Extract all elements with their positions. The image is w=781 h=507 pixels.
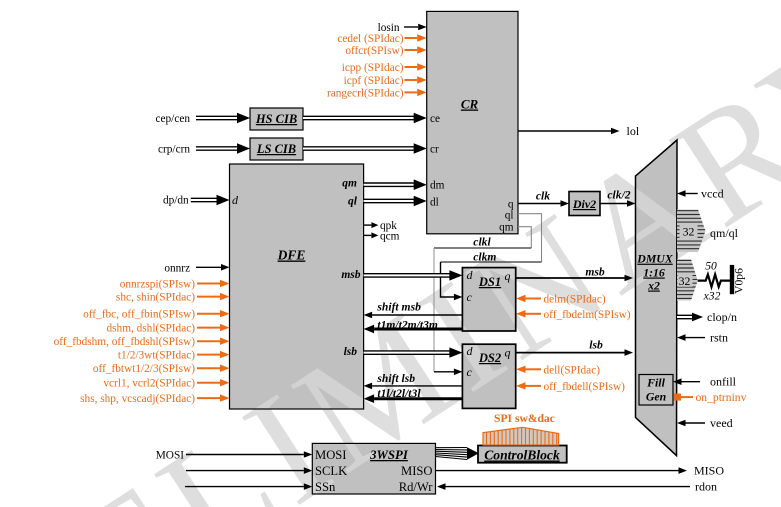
wire icpp to CR — [405, 66, 418, 68]
svg-text:delm(SPIdac): delm(SPIdac) — [544, 294, 606, 306]
svg-text:offcr(SPIsw): offcr(SPIsw) — [345, 45, 403, 57]
svg-text:1:16: 1:16 — [643, 266, 665, 280]
wire dell(SPIdac) to DS2 — [526, 368, 542, 370]
svg-text:q: q — [505, 346, 511, 360]
svg-text:V0p6: V0p6 — [733, 268, 746, 294]
svg-text:rangecrl(SPIdac): rangecrl(SPIdac) — [327, 87, 404, 99]
block HS CIB fill — [250, 108, 303, 130]
svg-text:onnrzspi(SPIsw): onnrzspi(SPIsw) — [120, 279, 196, 291]
svg-text:Fill: Fill — [646, 376, 665, 390]
svg-text:clk/2: clk/2 — [607, 189, 630, 202]
svg-text:off_fbc, off_fbin(SPIsw): off_fbc, off_fbin(SPIsw) — [83, 309, 195, 321]
svg-text:shs, shp, vcscadj(SPIdac): shs, shp, vcscadj(SPIdac) — [80, 393, 195, 405]
block 3WSPI fill — [312, 443, 435, 494]
svg-text:off_fbtwt1/2/3(SPIsw): off_fbtwt1/2/3(SPIsw) — [93, 363, 195, 375]
block DS1 fill — [462, 268, 515, 331]
svg-text:clop/n: clop/n — [707, 310, 737, 324]
wire clkm vertical to DS1 c — [441, 262, 455, 297]
wire DFE qcm out — [364, 234, 372, 236]
wire onnrz to DFE — [196, 266, 221, 268]
block LS CIB fill — [250, 138, 303, 160]
svg-text:vcrl1, vcrl2(SPIdac): vcrl1, vcrl2(SPIdac) — [103, 378, 195, 390]
svg-text:DFE: DFE — [277, 248, 306, 263]
svg-text:ql: ql — [505, 210, 514, 222]
wire vcrl1, vcrl2(SPIdac) to DFE — [197, 382, 220, 384]
wire DS1 q msb to DMUX — [516, 277, 625, 279]
svg-text:t1l/t2l/t3l: t1l/t2l/t3l — [377, 387, 421, 400]
wire Div2 clk/2 to DMUX — [600, 203, 627, 205]
diff wire HS CIB to CR ce — [303, 116, 415, 121]
svg-text:t1m/t2m/t3m: t1m/t2m/t3m — [377, 318, 438, 331]
svg-text:veed: veed — [710, 416, 733, 430]
svg-text:DS1: DS1 — [478, 275, 501, 289]
svg-text:shift msb: shift msb — [376, 301, 421, 314]
label plate 32 term — [678, 274, 693, 287]
svg-text:LS CIB: LS CIB — [256, 142, 296, 156]
svg-text:dl: dl — [430, 197, 439, 209]
bus fan SPI sw&dac — [483, 427, 559, 445]
svg-text:qm: qm — [499, 222, 514, 234]
wire shift msb to DFE — [372, 314, 462, 316]
svg-text:clkm: clkm — [473, 250, 496, 263]
svg-text:off_fbdell(SPIsw): off_fbdell(SPIsw) — [544, 381, 626, 393]
resistor 50 x32 — [698, 274, 732, 286]
svg-text:HS CIB: HS CIB — [255, 112, 297, 126]
svg-text:q: q — [508, 199, 514, 211]
svg-text:clk: clk — [536, 190, 550, 203]
diff wire cep/cen to HS CIB — [196, 116, 238, 121]
DS1 border — [462, 268, 515, 331]
diff wire DFE lsb to DS2 d — [364, 350, 451, 355]
diff wire DFE ql to CR dl — [364, 199, 415, 204]
block ControlBlock fill — [478, 446, 567, 463]
svg-text:off_fbdelm(SPIsw): off_fbdelm(SPIsw) — [544, 309, 631, 321]
svg-text:msb: msb — [341, 269, 360, 281]
wire clkl stub to DS2 c — [434, 371, 454, 373]
svg-text:32: 32 — [683, 225, 695, 239]
wire dshm, dshl(SPIdac) to DFE — [197, 327, 220, 329]
svg-text:vccd: vccd — [701, 187, 724, 201]
wire veed to DMUX — [686, 422, 706, 424]
block DS2 fill — [462, 344, 515, 408]
wire DFE qpk out — [364, 224, 372, 226]
DFE border — [230, 164, 364, 409]
svg-text:t1/2/3wt(SPIdac): t1/2/3wt(SPIdac) — [118, 350, 195, 362]
svg-text:onnrz: onnrz — [164, 262, 190, 274]
svg-text:Gen: Gen — [646, 390, 666, 404]
svg-text:q: q — [505, 269, 511, 283]
wire SCLK to 3WSPI — [186, 470, 304, 472]
wire off_fbdell(SPIsw) to DS2 — [526, 385, 542, 387]
3WSPI border — [312, 443, 435, 494]
wire CR lol out — [518, 130, 611, 132]
svg-text:MOSI: MOSI — [156, 450, 184, 462]
svg-text:cedel (SPIdac): cedel (SPIdac) — [337, 33, 403, 45]
svg-text:cep/cen: cep/cen — [156, 113, 191, 125]
block Div2 fill — [569, 192, 600, 216]
FillGen border — [639, 375, 673, 406]
svg-text:SSn: SSn — [315, 480, 336, 494]
HS CIB border — [250, 108, 303, 130]
svg-text:x32: x32 — [703, 290, 721, 303]
svg-text:icpp (SPIdac): icpp (SPIdac) — [342, 62, 404, 74]
svg-text:d: d — [467, 344, 474, 358]
wire off_fbdshm, off_fbdshl(SPIsw) to DFE — [197, 340, 220, 342]
bus 3WSPI to ControlBlock — [436, 447, 468, 449]
svg-text:dp/dn: dp/dn — [163, 195, 189, 207]
block DFE fill — [230, 164, 364, 409]
wire onnrzspi(SPIsw) to DFE — [197, 283, 220, 285]
wire offcr to CR — [405, 49, 418, 51]
diff wire DFE msb to DS1 d — [364, 273, 451, 278]
V0p6 rail — [730, 265, 734, 294]
svg-text:SCLK: SCLK — [315, 464, 347, 478]
svg-text:qm/ql: qm/ql — [710, 226, 739, 240]
svg-text:off_fbdshm, off_fbdshl(SPIsw): off_fbdshm, off_fbdshl(SPIsw) — [54, 336, 196, 348]
svg-text:on_ptrninv: on_ptrninv — [696, 391, 747, 404]
wire clkl vertical to DS2 — [433, 248, 435, 372]
svg-text:shc, shin(SPIdac): shc, shin(SPIdac) — [116, 292, 195, 304]
svg-text:ce: ce — [430, 113, 440, 125]
wire t1m/t2m/t3m bus to DFE — [374, 328, 462, 331]
wire off_fbtwt1/2/3(SPIsw) to DFE — [197, 367, 220, 369]
wire off_fbc, off_fbin(SPIsw) to DFE — [197, 313, 220, 315]
svg-text:d: d — [467, 268, 474, 282]
svg-text:SPI sw&dac: SPI sw&dac — [494, 412, 555, 425]
svg-text:32: 32 — [679, 274, 691, 288]
block FillGen fill — [639, 375, 673, 406]
wire off_fbdelm(SPIsw) to DS1 — [526, 313, 542, 315]
wire DS2 q lsb to DMUX — [516, 352, 625, 354]
svg-text:DS2: DS2 — [478, 351, 501, 365]
CR border — [427, 11, 518, 233]
svg-text:dm: dm — [430, 180, 445, 192]
svg-text:d: d — [232, 193, 239, 207]
wire rangecrl to CR — [405, 91, 418, 93]
svg-text:icpf (SPIdac): icpf (SPIdac) — [344, 75, 404, 87]
wire losin to CR — [404, 26, 418, 28]
wire onfill to FillGen — [682, 381, 701, 383]
svg-text:cr: cr — [430, 144, 439, 156]
svg-text:50: 50 — [705, 260, 717, 273]
svg-text:MISO: MISO — [694, 464, 724, 478]
wire on_ptrninv to FillGen — [678, 396, 693, 398]
LS CIB border — [250, 138, 303, 160]
diff wire dp/dn to DFE d — [191, 198, 218, 203]
svg-text:msb: msb — [585, 265, 605, 278]
svg-text:lol: lol — [627, 124, 640, 138]
wire shs, shp, vcscadj(SPIdac) to DFE — [197, 397, 220, 399]
block DMUX fill — [636, 140, 678, 456]
wire ql to clkm — [518, 214, 542, 262]
svg-text:MISO: MISO — [401, 464, 433, 478]
diff wire DMUX clop/n out — [677, 315, 693, 320]
DS2 border — [462, 344, 515, 408]
svg-text:shift lsb: shift lsb — [376, 372, 415, 385]
wire qm to clkl — [518, 227, 531, 248]
wire icpf to CR — [405, 79, 418, 81]
svg-text:clkl: clkl — [473, 236, 491, 249]
svg-text:qcm: qcm — [380, 230, 400, 242]
block CR fill — [427, 11, 518, 233]
ControlBlock border — [478, 446, 567, 463]
wire cedel to CR — [405, 37, 418, 39]
wire t1l/t2l/t3l bus to DFE — [374, 397, 462, 400]
svg-text:MOSI: MOSI — [315, 448, 347, 462]
svg-text:crp/crn: crp/crn — [158, 144, 190, 156]
DMUX border — [636, 140, 678, 456]
wire t1/2/3wt(SPIdac) to DFE — [197, 354, 220, 356]
wire delm(SPIdac) to DS1 — [526, 298, 542, 300]
svg-text:dell(SPIdac): dell(SPIdac) — [544, 364, 601, 376]
wire shift lsb to DFE — [372, 385, 462, 387]
svg-text:c: c — [467, 290, 473, 304]
diff wire LS CIB to CR cr — [303, 146, 415, 151]
svg-text:ControlBlock: ControlBlock — [484, 448, 560, 463]
svg-text:ql: ql — [348, 196, 358, 208]
wire SSn to 3WSPI — [185, 486, 304, 488]
svg-text:onfill: onfill — [710, 375, 737, 389]
svg-text:lsb: lsb — [344, 346, 358, 358]
svg-text:lsb: lsb — [589, 338, 603, 351]
diff wire DFE qm to CR dm — [364, 182, 415, 187]
svg-text:Rd/Wr: Rd/Wr — [399, 480, 434, 494]
wire CR q clk to Div2 — [518, 203, 561, 205]
wire vccd to DMUX — [686, 193, 698, 195]
wire rdon to 3WSPI RdWr — [446, 486, 691, 488]
svg-text:dshm, dshl(SPIdac): dshm, dshl(SPIdac) — [107, 323, 196, 335]
svg-text:rdon: rdon — [695, 480, 717, 494]
label plate 32 qm/ql — [680, 224, 698, 239]
diff wire crp/crn to LS CIB — [196, 146, 238, 151]
wire MOSI to 3WSPI — [186, 454, 304, 456]
svg-text:3WSPI: 3WSPI — [369, 448, 409, 462]
wire shc, shin(SPIdac) to DFE — [197, 296, 220, 298]
svg-text:x2: x2 — [647, 279, 660, 293]
wire 3WSPI MISO out — [436, 470, 679, 472]
svg-text:Div2: Div2 — [572, 197, 596, 211]
wire rstn to DMUX — [686, 337, 706, 339]
svg-text:qm: qm — [342, 177, 357, 189]
svg-text:c: c — [467, 365, 473, 379]
Div2 border — [569, 192, 600, 216]
svg-text:CR: CR — [461, 97, 479, 112]
svg-text:rstn: rstn — [710, 331, 728, 345]
svg-text:DMUX: DMUX — [636, 252, 674, 266]
